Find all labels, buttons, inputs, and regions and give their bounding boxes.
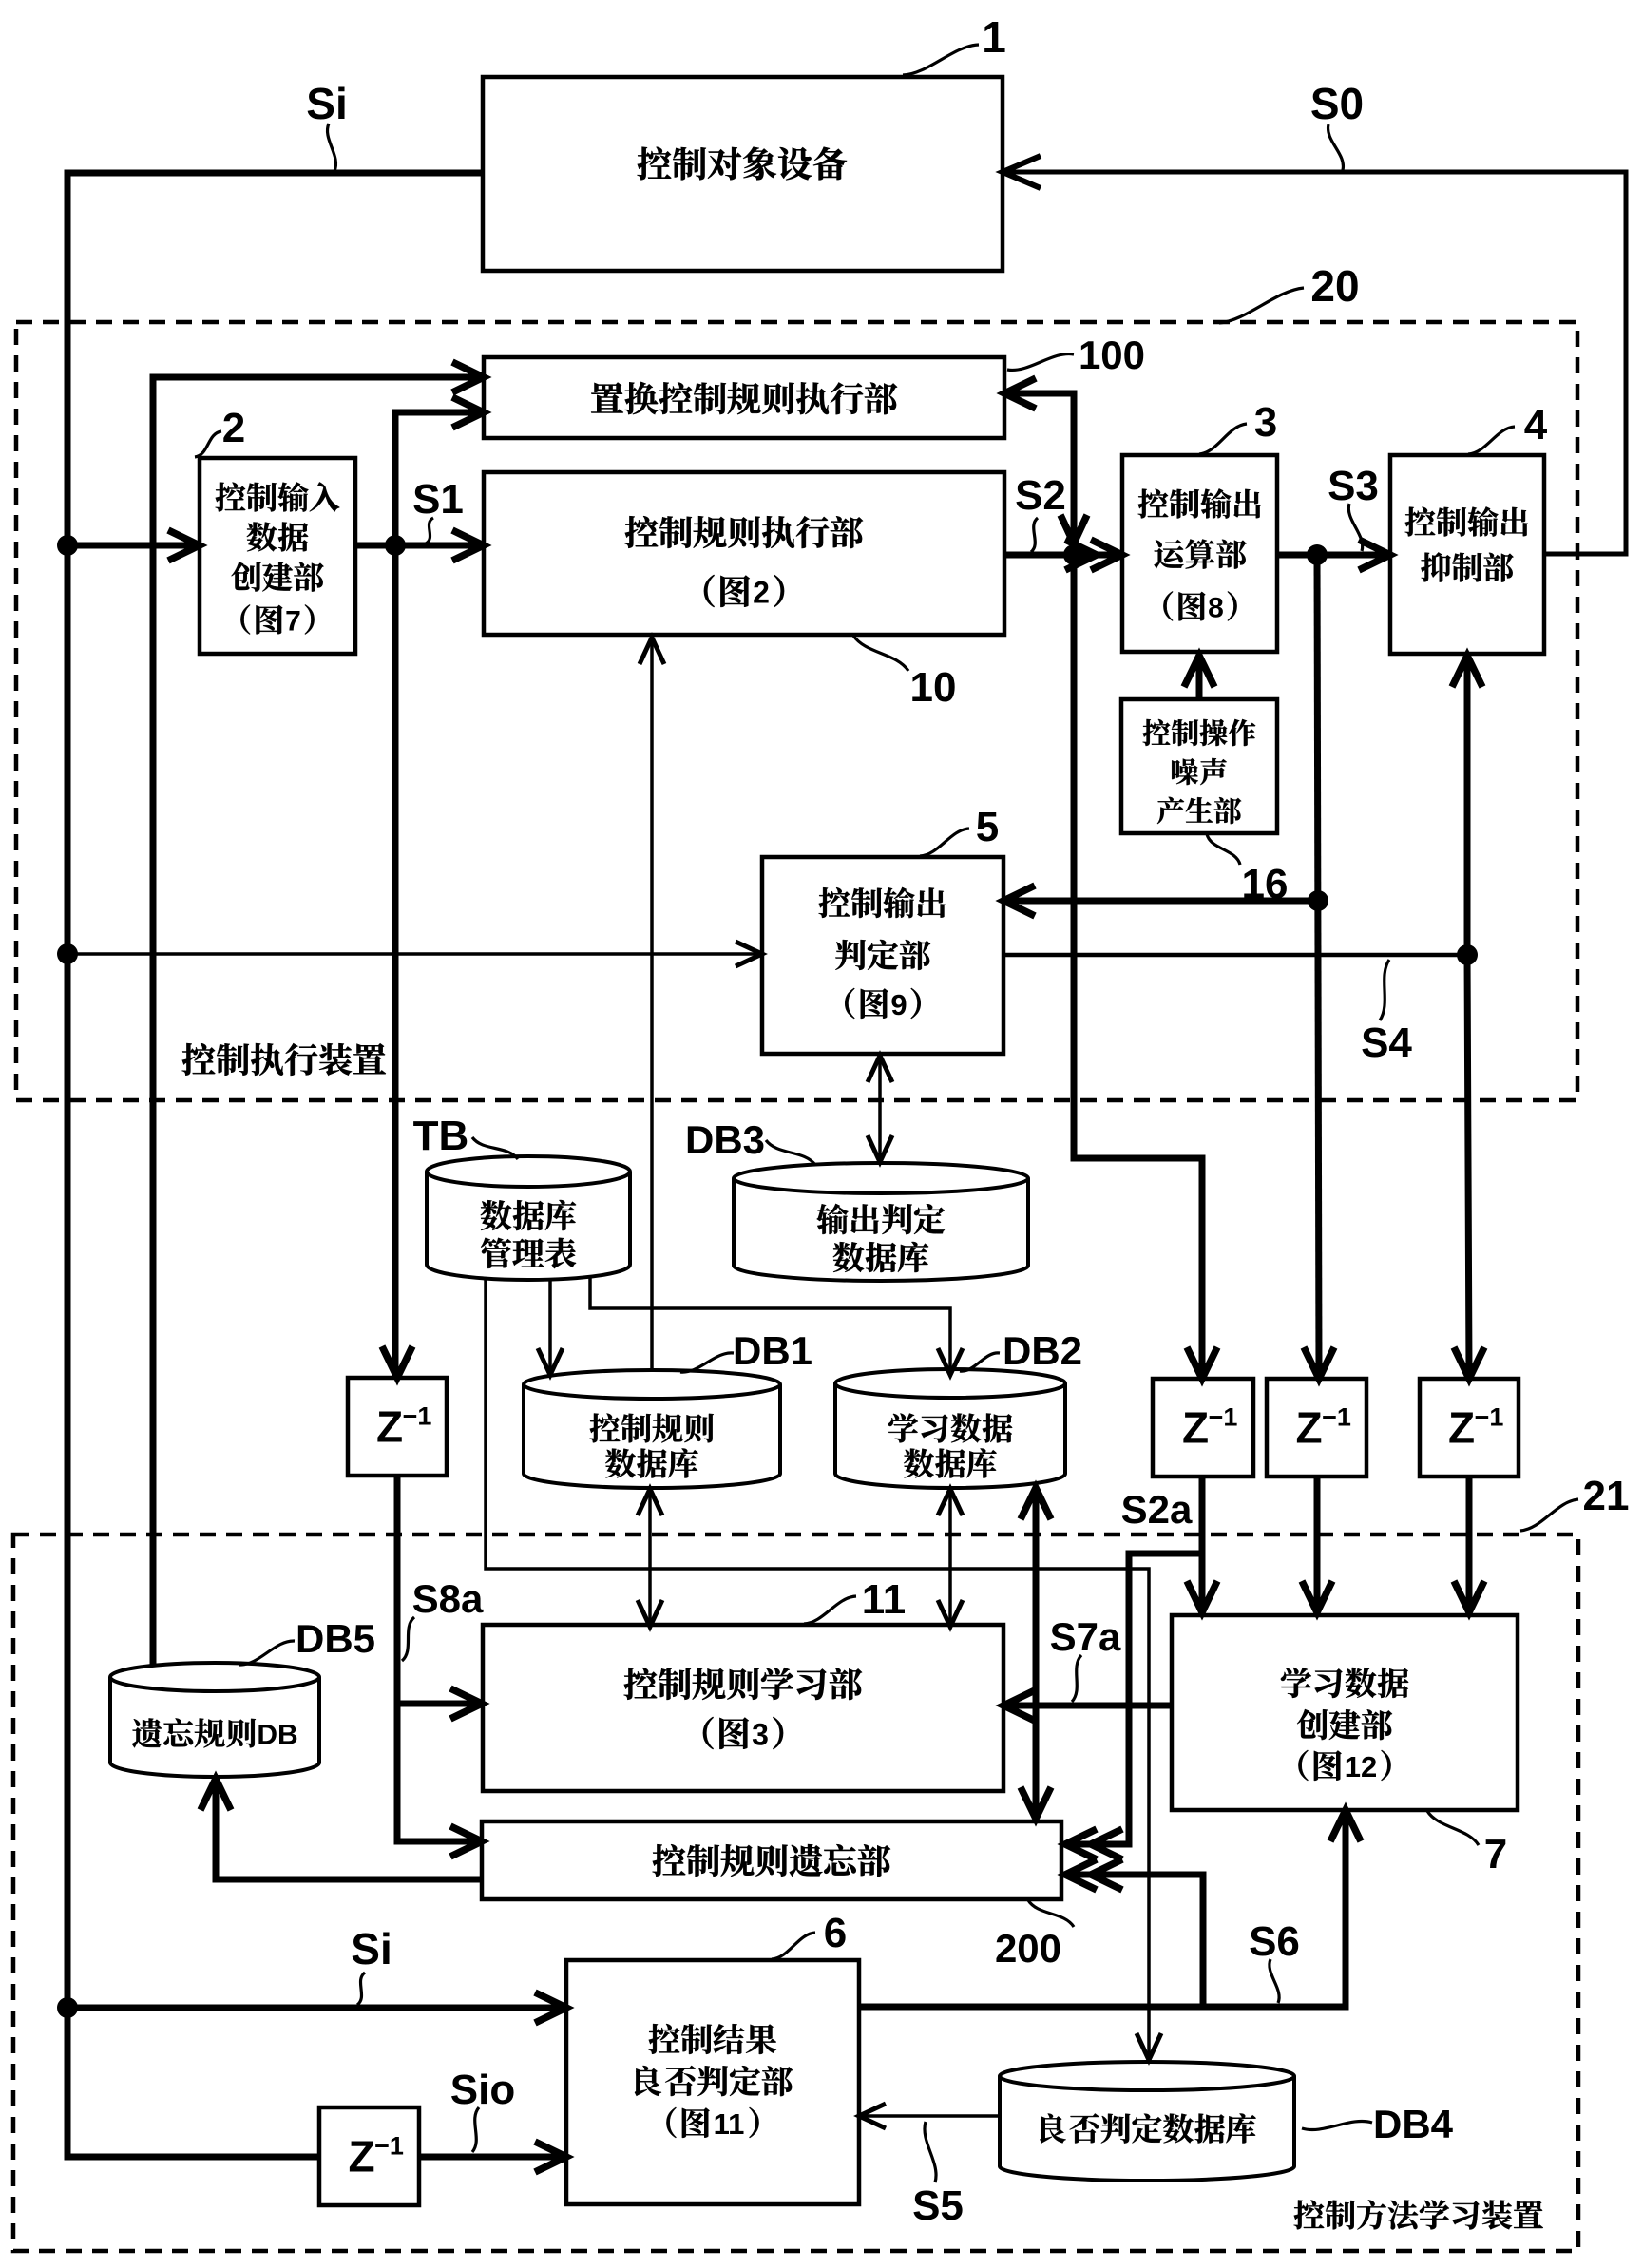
wire S8a branch into box11 left <box>397 1701 476 1707</box>
box 7 learning data creation <box>1172 1615 1518 1810</box>
box 11 control rule learning <box>483 1625 1003 1791</box>
svg-text:S0: S0 <box>1310 79 1364 128</box>
delay element Z^-1 ZC <box>1420 1379 1519 1477</box>
dashed boundary: control method learning device 21 <box>13 1534 1578 2251</box>
arrow into box1 (S0) <box>1003 156 1041 188</box>
wire Z-C out to box7 top <box>1466 1477 1473 1607</box>
wire Z-left out down to box200 left <box>397 1476 476 1841</box>
node S2 <box>1063 544 1084 565</box>
arrow into box100 upper left <box>452 362 484 392</box>
svg-text:DB: DB <box>257 1720 297 1751</box>
wire DB5 up into box100 <box>153 377 478 1663</box>
arrow DB1 up into box10 bottom <box>640 638 664 664</box>
svg-text:Z: Z <box>376 1402 403 1452</box>
svg-text:100: 100 <box>1079 333 1145 377</box>
wire Z-A out to box7 top <box>1199 1477 1206 1607</box>
svg-text:6: 6 <box>824 1910 847 1956</box>
wire Si thin to box5 left <box>67 952 756 956</box>
box 100 replacement control rule execution <box>484 357 1004 438</box>
svg-text:Si: Si <box>351 1924 392 1973</box>
arrow thin into box5 left <box>736 942 762 966</box>
svg-text:4: 4 <box>1524 402 1548 448</box>
svg-text:DB2: DB2 <box>1003 1328 1082 1373</box>
wire S3: box3 right to box4 <box>1277 552 1385 559</box>
svg-text:−1: −1 <box>1322 1403 1351 1432</box>
arrow TB into DB1 <box>538 1348 563 1375</box>
wire TB right into DB2 <box>590 1280 950 1369</box>
svg-text:16: 16 <box>1242 861 1289 907</box>
arrow TB into DB2 <box>938 1348 963 1375</box>
svg-text:S3: S3 <box>1328 463 1379 509</box>
svg-text:9: 9 <box>890 988 907 1021</box>
wire Si branch to box2 <box>67 543 192 549</box>
arrow Z-A into box7 <box>1187 1581 1217 1612</box>
arrow S3 into Z-B <box>1304 1347 1334 1379</box>
node S3-box5 <box>1308 890 1328 911</box>
arrow Sio into box6 <box>535 2142 566 2172</box>
arrow TB down into DB4 top <box>1137 2033 1161 2060</box>
box 3 control output computation <box>1122 455 1277 652</box>
wire S6: box6 right to box7 bottom <box>859 1816 1346 2007</box>
arrow S2a into Z-A <box>1187 1347 1217 1379</box>
wire S1 up into box100 <box>395 412 478 545</box>
wire S2 node down, jog, to Z-A <box>1074 555 1202 1373</box>
svg-text:S2: S2 <box>1015 472 1066 519</box>
wire S3 node thick into box5 right <box>1009 898 1318 905</box>
arrow into box200 right upper <box>1065 1829 1097 1859</box>
node Si-box2 <box>57 535 78 556</box>
wire S6 branch to box200 right lower <box>1071 1875 1203 2007</box>
svg-text:7: 7 <box>285 606 301 638</box>
caption control method learning device <box>1294 2200 1325 2229</box>
arrow Z-B into box7 <box>1302 1581 1332 1612</box>
box 10 control rule execution <box>484 472 1004 635</box>
svg-text:8: 8 <box>1208 593 1224 624</box>
wire S0: box4 right, up, into box1 right <box>1008 172 1626 554</box>
database DB4 quality judgement <box>1000 2076 1294 2181</box>
box 200 control rule forgetting <box>482 1821 1061 1899</box>
wire S7a: box7 left to box11 right <box>1009 1703 1172 1709</box>
delay element Z^-1 ZB <box>1267 1379 1366 1477</box>
delay element Z^-1 ZL <box>348 1378 447 1476</box>
arrow into box100 right <box>1004 378 1036 409</box>
arrow down into box11 top from DB1 <box>638 1600 662 1627</box>
wire box200 left to DB5 bottom <box>216 1784 482 1879</box>
wire Si main: box1 left -> left bus down -> Z6 <box>67 173 483 2157</box>
svg-text:S8a: S8a <box>412 1576 484 1621</box>
svg-text:7: 7 <box>1484 1831 1507 1877</box>
svg-text:10: 10 <box>910 664 957 711</box>
svg-text:Z: Z <box>1295 1403 1322 1453</box>
wire TB down, right, down into DB4 <box>486 1280 1149 2054</box>
wire S5: DB4 to box6 <box>865 2114 1000 2118</box>
wire DB1 up into box10 bottom <box>650 643 654 1370</box>
box 2 control input data creation <box>200 458 355 654</box>
svg-text:200: 200 <box>995 1926 1061 1971</box>
svg-text:5: 5 <box>976 804 999 850</box>
svg-text:DB1: DB1 <box>733 1328 812 1373</box>
svg-text:S2a: S2a <box>1121 1487 1193 1532</box>
wire TB into DB1 <box>548 1280 552 1369</box>
wire Z-B out to box7 top <box>1314 1477 1321 1607</box>
svg-text:21: 21 <box>1583 1473 1630 1519</box>
svg-text:DB3: DB3 <box>685 1117 765 1162</box>
arrow thick up into DB2 bottom <box>1021 1488 1051 1519</box>
wire Sio: Z6 out to box6 <box>419 2154 561 2161</box>
database DB1 control rule <box>524 1384 780 1488</box>
arrow Z-C into box7 <box>1454 1581 1484 1612</box>
wire box16 up into box3 <box>1196 661 1203 699</box>
node S4 <box>1457 944 1478 965</box>
node S3 <box>1307 544 1328 565</box>
arrow into box11 left (S8a) <box>450 1688 482 1719</box>
node Si-box6 <box>57 1997 78 2018</box>
arrow into box2 <box>168 530 200 561</box>
svg-text:11: 11 <box>714 2107 745 2141</box>
svg-text:S7a: S7a <box>1050 1614 1121 1659</box>
svg-text:S5: S5 <box>912 2182 964 2229</box>
database DB5 forgotten rules <box>110 1677 319 1777</box>
wire box5 - DB3 bidirectional <box>878 1061 882 1156</box>
svg-text:DB5: DB5 <box>296 1616 375 1661</box>
wire box2 out / S1 to box10 <box>355 543 478 549</box>
wire Si to box6 <box>67 2005 561 2011</box>
dashed boundary: control execution device 20 <box>16 322 1577 1100</box>
delay element Z^-1 ZA <box>1153 1379 1253 1477</box>
svg-text:−1: −1 <box>374 2132 404 2161</box>
svg-text:S1: S1 <box>412 476 464 523</box>
arrow into box3 (S2) <box>1091 540 1122 570</box>
svg-text:3: 3 <box>752 1718 769 1752</box>
svg-text:Z: Z <box>348 2132 374 2182</box>
svg-text:Z: Z <box>1182 1403 1209 1453</box>
arrow S5 into box6 right <box>859 2104 886 2128</box>
database DB3 output judgement <box>734 1178 1028 1281</box>
box 1 controlled target device <box>483 77 1003 271</box>
arrow down into S2 node <box>1060 515 1087 543</box>
arrow S6 up into box7 bottom <box>1330 1810 1361 1841</box>
arrow thick down into box200 top <box>1021 1787 1051 1819</box>
box 5 control output judgement <box>762 857 1003 1054</box>
database TB management table <box>427 1172 630 1280</box>
wire S2: box10 right to box3 <box>1004 552 1117 559</box>
arrow Si into box6 <box>535 1992 566 2023</box>
arrow into box10 (S1) <box>452 530 484 561</box>
box 4 control output suppression <box>1390 455 1544 654</box>
database DB2 learning data <box>835 1383 1065 1488</box>
svg-text:11: 11 <box>862 1576 907 1623</box>
box 6 control result quality judgement <box>566 1960 859 2204</box>
arrow into box200 right lower <box>1065 1859 1097 1890</box>
svg-text:12: 12 <box>1345 1750 1377 1783</box>
arrow up into DB5 bottom <box>201 1779 231 1810</box>
arrow up into DB2 bottom <box>938 1489 963 1515</box>
arrow into box200 left <box>450 1826 482 1857</box>
svg-text:−1: −1 <box>403 1402 432 1431</box>
wire DB2 - box11 bidirectional <box>948 1495 952 1622</box>
svg-text:S6: S6 <box>1249 1918 1300 1965</box>
wire S4 node down to Z-C <box>1467 955 1469 1373</box>
arrow S4 into Z-C <box>1454 1347 1484 1379</box>
svg-text:−1: −1 <box>1209 1403 1238 1432</box>
wire S4: box5 right to S4 node <box>1003 953 1467 958</box>
node S1 <box>385 535 406 556</box>
svg-text:Z: Z <box>1448 1403 1475 1453</box>
arrow box16 into box3 <box>1184 656 1214 687</box>
wire S2 node up into box100 right <box>1010 393 1074 549</box>
svg-text:20: 20 <box>1310 261 1359 311</box>
svg-text:3: 3 <box>1254 399 1277 446</box>
wire S4 node up into box4 bottom <box>1464 661 1471 955</box>
box 16 control operation noise generation <box>1121 699 1277 833</box>
svg-text:DB4: DB4 <box>1373 2102 1454 2146</box>
arrow S4 into box4 bottom <box>1452 656 1482 687</box>
svg-text:Si: Si <box>306 79 347 128</box>
svg-text:S4: S4 <box>1361 1020 1412 1066</box>
arrow up into box5 bottom <box>868 1056 892 1082</box>
arrow down into DB3 top <box>868 1135 892 1162</box>
wire S2a branch to box200 right upper <box>1071 1553 1202 1844</box>
svg-text:2: 2 <box>222 405 245 451</box>
arrow down into box11 top from DB2 <box>938 1600 963 1627</box>
wire DB2 - box200 vertical <box>1033 1494 1040 1813</box>
arrow up into DB1 bottom <box>638 1489 662 1515</box>
wire DB1 - box11 bidirectional <box>648 1495 652 1622</box>
arrow thick into box5 right <box>1003 886 1035 916</box>
svg-text:TB: TB <box>413 1113 469 1159</box>
svg-text:1: 1 <box>982 12 1006 62</box>
arrow S1 into Z-left <box>382 1346 412 1378</box>
wire S1 down to Z-left box <box>392 545 399 1372</box>
arrow into box100 lower left <box>452 397 484 428</box>
node Si-box5 <box>57 943 78 964</box>
arrow into box11 right (S7a) <box>1003 1690 1035 1721</box>
svg-text:−1: −1 <box>1475 1403 1504 1432</box>
caption control execution device <box>182 1043 216 1076</box>
arrow into box4 (S3) <box>1359 540 1390 570</box>
svg-text:2: 2 <box>753 576 770 610</box>
svg-text:Sio: Sio <box>450 2067 515 2113</box>
delay element Z^-1 Z6 <box>319 2107 419 2205</box>
wire S3 node down to Z-B <box>1317 555 1319 1373</box>
